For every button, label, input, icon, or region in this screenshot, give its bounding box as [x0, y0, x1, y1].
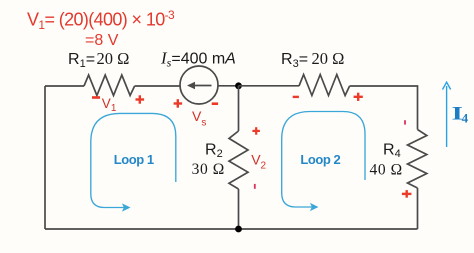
node B junction dot (bottom)	[235, 226, 242, 233]
annotation = 8 V	[85, 32, 119, 49]
svg-text:Vs: Vs	[192, 108, 206, 129]
wire top-left segment	[45, 85, 84, 87]
polarity plus of V2	[252, 127, 260, 135]
label R2	[205, 141, 223, 160]
wire R4 to bottom-right corner	[417, 188, 419, 229]
wire bottom side	[45, 228, 418, 230]
polarity minus of Vs	[212, 102, 218, 105]
resistor R1	[84, 75, 135, 96]
polarity plus of R4 (bottom)	[402, 190, 412, 198]
label R1=20 ohm	[68, 49, 129, 70]
polarity minus of V1	[92, 96, 100, 99]
current I4 arrow	[443, 82, 451, 147]
wire left side	[44, 86, 46, 229]
wire middle branch lower	[238, 189, 240, 229]
polarity minus tick of R4 (top)	[404, 120, 406, 124]
svg-text:R2: R2	[205, 141, 223, 160]
label Vs (red)	[192, 108, 206, 129]
current source Is (circle)	[180, 66, 218, 104]
value 30 ohm	[192, 161, 225, 178]
svg-text:40 Ω: 40 Ω	[370, 161, 403, 178]
loop 1 mesh arrow	[91, 113, 176, 211]
svg-text:R3=20 Ω: R3=20 Ω	[281, 49, 344, 70]
current source arrow (pointing left)	[187, 82, 212, 89]
resistor R3	[299, 75, 350, 96]
label Is=400 mA	[160, 49, 236, 70]
polarity plus of V1	[136, 95, 145, 103]
label Loop 1	[114, 152, 154, 167]
label I4 (blue)	[452, 103, 469, 125]
svg-text:Loop 1: Loop 1	[114, 152, 154, 167]
svg-text:V1= (20)(400) × 10-3: V1= (20)(400) × 10-3	[27, 8, 175, 32]
polarity plus of Vs	[174, 99, 183, 108]
wire node A to R3	[239, 85, 300, 87]
wire source to node A	[218, 85, 239, 87]
resistor R2	[229, 131, 248, 189]
label R4	[383, 141, 401, 160]
svg-text:=8 V: =8 V	[85, 32, 119, 49]
label V1 (red)	[102, 96, 117, 114]
annotation V1 = (20)(400) x 10^-3	[27, 8, 175, 32]
polarity minus of R3	[293, 96, 299, 98]
svg-text:Loop 2: Loop 2	[300, 152, 340, 167]
svg-text:30 Ω: 30 Ω	[192, 161, 225, 178]
value 40 ohm	[370, 161, 403, 178]
wire R3 to top-right corner	[350, 86, 418, 130]
polarity minus tick of V2	[254, 184, 256, 189]
svg-text:R1=20 Ω: R1=20 Ω	[68, 49, 129, 70]
svg-text:V1: V1	[102, 96, 117, 114]
label Loop 2	[300, 152, 340, 167]
svg-text:4: 4	[462, 110, 469, 125]
resistor R4	[408, 130, 427, 189]
svg-text:V2: V2	[251, 152, 266, 172]
wire R1 to source	[135, 85, 180, 87]
label V2 (red)	[251, 152, 266, 172]
svg-text:R4: R4	[383, 141, 401, 160]
node A junction dot	[235, 82, 242, 89]
wire middle branch upper	[238, 86, 240, 131]
loop 2 mesh arrow	[282, 112, 365, 212]
polarity plus of R3	[354, 93, 363, 101]
label R3=20 ohm	[281, 49, 344, 70]
svg-text:Is=400 mA: Is=400 mA	[160, 49, 236, 70]
